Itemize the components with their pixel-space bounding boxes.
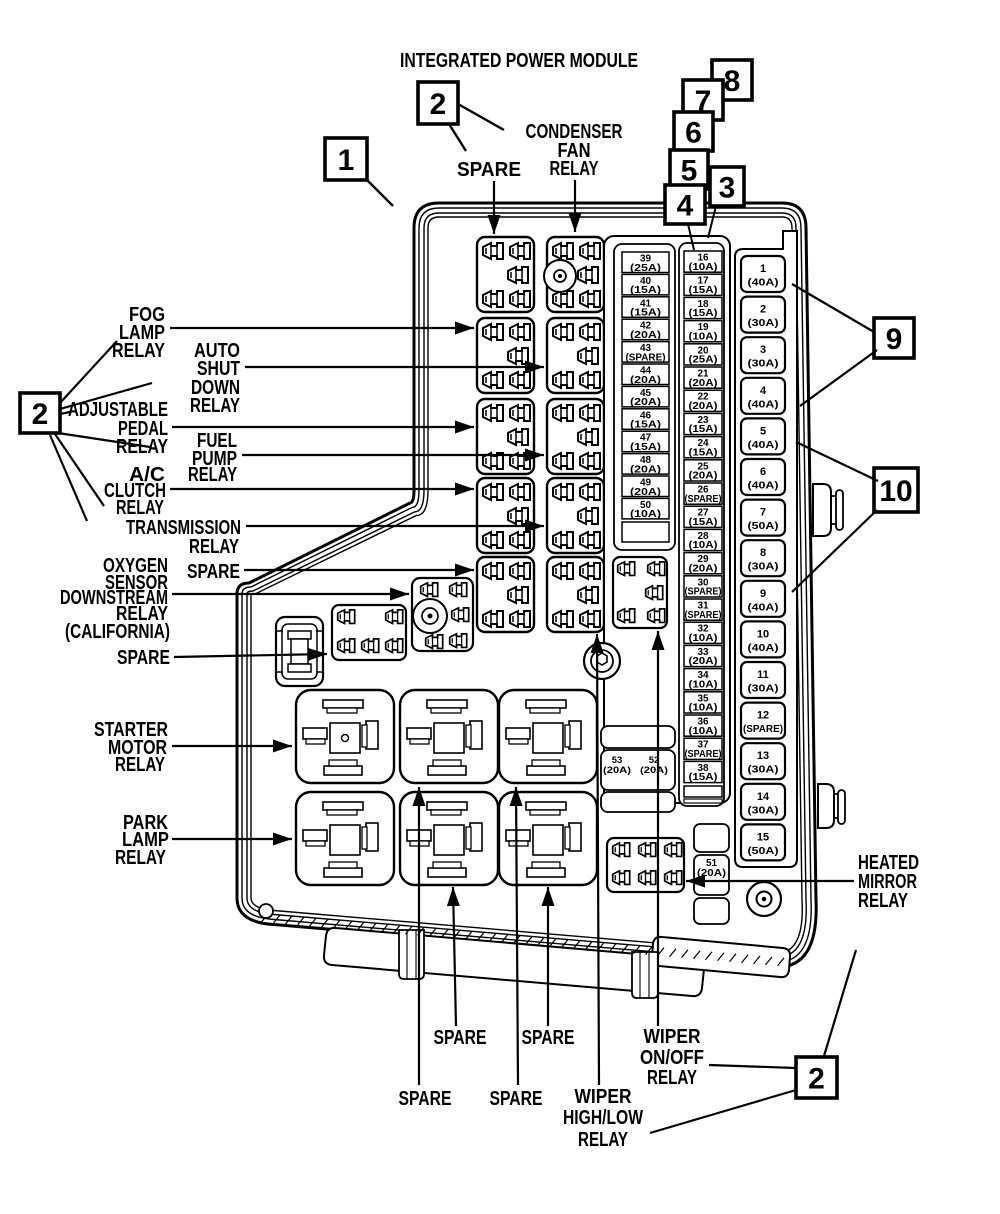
fuse 14 (30A): [741, 784, 785, 820]
svg-text:RELAY: RELAY: [115, 754, 165, 776]
callout 2 (top): [418, 82, 458, 124]
casing inner wall line 2: [247, 213, 806, 957]
fuse 33 (20A): [684, 645, 722, 666]
bolt below relay columns: [584, 643, 620, 679]
fuse 53 (20A) and 52 (20A): [601, 750, 675, 790]
fuse column A border: [614, 244, 675, 550]
svg-text:RELAY: RELAY: [112, 340, 166, 362]
fuse 40 (15A): [622, 274, 669, 295]
svg-text:1: 1: [338, 144, 355, 177]
fuse 12 (SPARE): [741, 703, 785, 739]
svg-text:6: 6: [760, 466, 766, 478]
fuse 50 (10A): [622, 498, 669, 519]
arrow WIPER HIGH/LOW RELAY: [597, 634, 599, 1085]
svg-text:(15A): (15A): [630, 285, 661, 296]
svg-text:(SPARE): (SPARE): [743, 724, 783, 735]
fuse 41 (15A): [622, 297, 669, 318]
A/C clutch relay: [477, 478, 534, 553]
svg-text:(10A): (10A): [689, 726, 718, 737]
fuse 20 (25A): [684, 344, 722, 365]
svg-text:4: 4: [760, 385, 767, 397]
svg-text:SPARE: SPARE: [522, 1027, 575, 1049]
fuse 2 (30A): [741, 297, 785, 333]
svg-text:HIGH/LOW: HIGH/LOW: [563, 1107, 643, 1129]
svg-text:4: 4: [677, 189, 694, 222]
fuse column C border: [735, 231, 797, 867]
svg-text:(30A): (30A): [748, 805, 779, 816]
fuse 30 (SPARE): [684, 576, 722, 597]
svg-text:(25A): (25A): [630, 263, 661, 274]
svg-text:(40A): (40A): [748, 278, 779, 289]
fuse 29 (20A): [684, 553, 722, 574]
condenser fan relay circular terminal: [544, 260, 576, 292]
svg-text:SPARE: SPARE: [399, 1088, 452, 1110]
left foot tab: [399, 930, 424, 979]
svg-text:(30A): (30A): [748, 765, 779, 776]
arrow SPARE lower left: [174, 654, 327, 657]
bottom right band: [652, 937, 790, 977]
svg-text:(15A): (15A): [689, 447, 718, 458]
arrow SPARE bottom 2 (to big relay r2c2): [453, 887, 456, 1026]
fuse 36 (10A): [684, 715, 722, 736]
svg-text:5: 5: [681, 154, 698, 187]
svg-text:(20A): (20A): [630, 375, 661, 386]
svg-text:(SPARE): (SPARE): [685, 587, 722, 598]
fuse 38 (15A): [684, 761, 722, 782]
6-pin relay below fuse column A (wiper on/off relay): [613, 557, 667, 628]
arrow ADJUSTABLE PEDAL RELAY: [172, 426, 474, 428]
svg-text:RELAY: RELAY: [116, 436, 169, 458]
casing inner wall line 3: [251, 217, 802, 953]
starter motor relay center dot: [342, 735, 349, 742]
right foot tab: [632, 952, 658, 998]
svg-text:(SPARE): (SPARE): [685, 749, 722, 760]
fuse 32 (10A): [684, 622, 722, 643]
svg-text:(20A): (20A): [689, 401, 718, 412]
svg-text:2: 2: [760, 304, 766, 316]
spare relay (vertical, left): [276, 617, 323, 686]
arrow SPARE bottom 3 (to big relay r1c3): [516, 787, 518, 1085]
svg-text:(15A): (15A): [689, 308, 718, 319]
svg-text:RELAY: RELAY: [190, 395, 240, 417]
fuse 25 (20A): [684, 460, 722, 481]
svg-text:WIPER: WIPER: [575, 1086, 632, 1108]
arrow from CONDENSER FAN RELAY to relay: [574, 180, 576, 232]
fuse 8 (30A): [741, 540, 785, 576]
wiper high/low relay: [547, 557, 604, 632]
svg-text:RELAY: RELAY: [116, 497, 164, 519]
arrow A/C CLUTCH RELAY: [170, 488, 474, 490]
svg-text:(20A): (20A): [689, 471, 718, 482]
svg-text:(50A): (50A): [748, 521, 779, 532]
spare relay (top left): [477, 237, 534, 312]
bottom tray flange: [324, 928, 704, 996]
fuse 18 (15A): [684, 297, 722, 318]
park lamp relay: [296, 792, 394, 885]
fuse 26 (SPARE): [684, 483, 722, 504]
callout 5: [670, 150, 708, 189]
fuse 13 (30A): [741, 743, 785, 779]
fuse 27 (15A): [684, 506, 722, 527]
svg-text:(20A): (20A): [640, 765, 668, 776]
spare relay (row 5 col 1): [477, 557, 534, 632]
arrow from SPARE to relay: [493, 181, 495, 234]
fuse 51 stack bottom cell: [694, 898, 729, 924]
right edge latch lower: [818, 784, 845, 828]
svg-text:(SPARE): (SPARE): [685, 494, 722, 505]
casing inner wall line 1: [242, 208, 811, 962]
fuse 47 (15A): [622, 431, 669, 452]
arrow TRANSMISSION RELAY: [246, 525, 544, 527]
arrow FUEL PUMP RELAY: [242, 454, 544, 456]
condenser fan relay: [547, 237, 604, 312]
callout 2 (left): [20, 393, 60, 433]
leader lines callout 9: [792, 284, 874, 332]
fuse 37 (SPARE): [684, 738, 722, 759]
fuse 22 (20A): [684, 390, 722, 411]
fuse 49 (20A): [622, 476, 669, 497]
transmission relay: [547, 478, 604, 553]
leader line callout 4: [688, 224, 694, 250]
arrow WIPER ON/OFF RELAY: [657, 631, 659, 1026]
fuse 16 (10A): [684, 251, 722, 272]
callout 6: [674, 112, 713, 151]
svg-text:7: 7: [760, 507, 766, 519]
spare big relay r1c3: [499, 690, 597, 783]
svg-text:(CALIFORNIA): (CALIFORNIA): [65, 621, 170, 643]
svg-text:(20A): (20A): [689, 378, 718, 389]
svg-text:6: 6: [685, 116, 702, 149]
svg-text:2: 2: [808, 1062, 825, 1095]
svg-text:WIPER: WIPER: [644, 1026, 701, 1048]
fuse 23 (15A): [684, 413, 722, 434]
fuse 31 (SPARE): [684, 599, 722, 620]
fuse 51 stack top cell: [694, 824, 729, 852]
svg-text:RELAY: RELAY: [578, 1129, 628, 1151]
svg-text:(20A): (20A): [630, 397, 661, 408]
svg-text:(15A): (15A): [630, 308, 661, 319]
svg-text:SPARE: SPARE: [490, 1088, 543, 1110]
svg-text:3: 3: [719, 171, 736, 204]
svg-text:(15A): (15A): [689, 772, 718, 783]
callout 8: [712, 60, 752, 100]
svg-text:(15A): (15A): [689, 517, 718, 528]
svg-text:(20A): (20A): [603, 765, 631, 776]
callout 7: [683, 80, 723, 120]
heated mirror relay (6-pin): [607, 838, 684, 892]
svg-text:(20A): (20A): [630, 464, 661, 475]
svg-text:10: 10: [879, 475, 912, 508]
svg-text:10: 10: [757, 628, 769, 640]
svg-text:(25A): (25A): [689, 355, 718, 366]
arrow SPARE middle: [244, 569, 474, 571]
right edge latch upper: [813, 484, 843, 536]
svg-text:11: 11: [757, 669, 769, 681]
svg-text:(15A): (15A): [630, 420, 661, 431]
fuse 51 (20A): [694, 855, 729, 895]
fuse column B border: [679, 243, 724, 806]
callout 4: [665, 185, 705, 224]
svg-text:(10A): (10A): [689, 703, 718, 714]
spare big relay r2c2: [400, 792, 498, 885]
svg-text:(15A): (15A): [689, 424, 718, 435]
fuse 35 (10A): [684, 692, 722, 713]
svg-text:RELAY: RELAY: [115, 847, 167, 869]
bottom edge hatching: [262, 914, 785, 966]
leader line callout 1: [366, 179, 393, 206]
arrow AUTO SHUT DOWN RELAY: [245, 366, 544, 368]
svg-text:9: 9: [760, 588, 766, 600]
svg-text:(15A): (15A): [689, 285, 718, 296]
fuse 34 (10A): [684, 669, 722, 690]
fuse panel outer border: [604, 236, 730, 803]
spare big relay r2c3: [499, 792, 597, 885]
bolt bottom right: [747, 882, 781, 916]
callout 10: [874, 468, 918, 512]
starter motor relay: [296, 690, 394, 783]
arrow SPARE bottom 1 (to big relay r1c2): [418, 787, 420, 1085]
svg-text:(30A): (30A): [748, 359, 779, 370]
arrow FOG LAMP RELAY: [170, 327, 474, 329]
svg-text:(30A): (30A): [748, 562, 779, 573]
arrow SPARE bottom 4 (to big relay r2c3): [547, 887, 549, 1026]
svg-text:INTEGRATED POWER MODULE: INTEGRATED POWER MODULE: [400, 50, 638, 72]
fuse 10 (40A): [741, 621, 785, 657]
leader line callout 3: [708, 206, 716, 238]
fuse 11 (30A): [741, 662, 785, 698]
svg-text:5: 5: [760, 425, 766, 437]
fuse 44 (20A): [622, 364, 669, 385]
svg-text:(40A): (40A): [748, 643, 779, 654]
adjustable pedal relay: [477, 399, 534, 474]
svg-text:(40A): (40A): [748, 602, 779, 613]
svg-text:(SPARE): (SPARE): [626, 352, 666, 363]
svg-text:RELAY: RELAY: [858, 890, 908, 912]
svg-text:SPARE: SPARE: [117, 647, 170, 669]
svg-text:9: 9: [886, 323, 903, 356]
svg-text:2: 2: [430, 88, 447, 121]
svg-text:(20A): (20A): [689, 656, 718, 667]
callout 9: [874, 318, 914, 358]
svg-text:1: 1: [760, 263, 766, 275]
fog lamp relay: [477, 318, 534, 393]
fuse 15 (50A): [741, 824, 785, 860]
svg-text:14: 14: [757, 791, 770, 803]
fuse 3 (30A): [741, 337, 785, 373]
fuse 45 (20A): [622, 386, 669, 407]
fuse 39 (25A): [622, 252, 669, 273]
spare 6-pin relay (center): [332, 605, 406, 660]
arrow OXYGEN SENSOR DOWNSTREAM RELAY: [172, 593, 409, 595]
fuse column B empty cell: [684, 786, 722, 797]
svg-text:2: 2: [32, 398, 49, 431]
callout 3: [710, 167, 744, 206]
svg-text:ON/OFF: ON/OFF: [640, 1047, 704, 1069]
leader lines callout 10: [796, 442, 878, 481]
svg-text:(10A): (10A): [689, 679, 718, 690]
svg-text:SPARE: SPARE: [434, 1027, 487, 1049]
callout 1: [325, 138, 367, 180]
svg-text:SPARE: SPARE: [187, 561, 240, 583]
fuse 21 (20A): [684, 367, 722, 388]
svg-text:(10A): (10A): [689, 262, 718, 273]
svg-text:(20A): (20A): [689, 563, 718, 574]
svg-text:RELAY: RELAY: [188, 464, 237, 486]
fuse 53/52 stack border: [601, 726, 675, 748]
fan lines callout 2 left: [60, 341, 117, 403]
fuse 42 (20A): [622, 319, 669, 340]
arrow STARTER MOTOR RELAY: [172, 745, 292, 747]
svg-text:15: 15: [757, 831, 769, 843]
svg-text:8: 8: [724, 65, 741, 98]
svg-text:(20A): (20A): [630, 330, 661, 341]
arrow HEATED MIRROR RELAY: [686, 880, 854, 882]
leader lines callout 2 bottom: [709, 1065, 796, 1068]
svg-text:(30A): (30A): [748, 684, 779, 695]
svg-text:(40A): (40A): [748, 481, 779, 492]
fuse 4 (40A): [741, 378, 785, 414]
fuse box outer casing wall: [237, 203, 816, 967]
fuse 7 (50A): [741, 500, 785, 536]
oxygen sensor downstream relay (california): [412, 578, 473, 651]
bottom left corner bolt hole: [259, 904, 273, 918]
svg-text:(SPARE): (SPARE): [685, 610, 722, 621]
fuel pump relay: [547, 399, 604, 474]
fuse 17 (15A): [684, 274, 722, 295]
fuse 19 (10A): [684, 321, 722, 342]
svg-text:RELAY: RELAY: [550, 158, 599, 180]
svg-text:(15A): (15A): [630, 442, 661, 453]
spare big relay r1c2: [400, 690, 498, 783]
svg-text:RELAY: RELAY: [189, 536, 239, 558]
svg-text:(10A): (10A): [689, 633, 718, 644]
svg-text:13: 13: [757, 750, 769, 762]
fuse 6 (40A): [741, 459, 785, 495]
svg-text:SPARE: SPARE: [457, 159, 521, 181]
fuse 24 (15A): [684, 437, 722, 458]
fuse 9 (40A): [741, 581, 785, 617]
svg-text:(30A): (30A): [748, 318, 779, 329]
fuse 46 (15A): [622, 409, 669, 430]
fuse 43 (SPARE): [622, 342, 669, 363]
svg-text:(10A): (10A): [630, 509, 661, 520]
arrow PARK LAMP RELAY: [172, 838, 292, 840]
fuse 28 (10A): [684, 529, 722, 550]
svg-text:(20A): (20A): [630, 487, 661, 498]
fuse 5 (40A): [741, 418, 785, 454]
svg-text:8: 8: [760, 547, 766, 559]
svg-text:(40A): (40A): [748, 440, 779, 451]
svg-text:RELAY: RELAY: [647, 1067, 697, 1089]
fuse 48 (20A): [622, 454, 669, 475]
svg-text:(50A): (50A): [748, 846, 779, 857]
svg-text:12: 12: [757, 710, 769, 722]
svg-text:(10A): (10A): [689, 331, 718, 342]
leader lines callout 2 top: [458, 104, 504, 130]
fuse 1 (40A): [741, 256, 785, 292]
fuse column A empty cell: [622, 522, 669, 542]
auto shut down relay: [547, 318, 604, 393]
svg-text:(40A): (40A): [748, 399, 779, 410]
svg-text:3: 3: [760, 344, 766, 356]
callout 2 (bottom right): [796, 1057, 837, 1098]
svg-text:(10A): (10A): [689, 540, 718, 551]
